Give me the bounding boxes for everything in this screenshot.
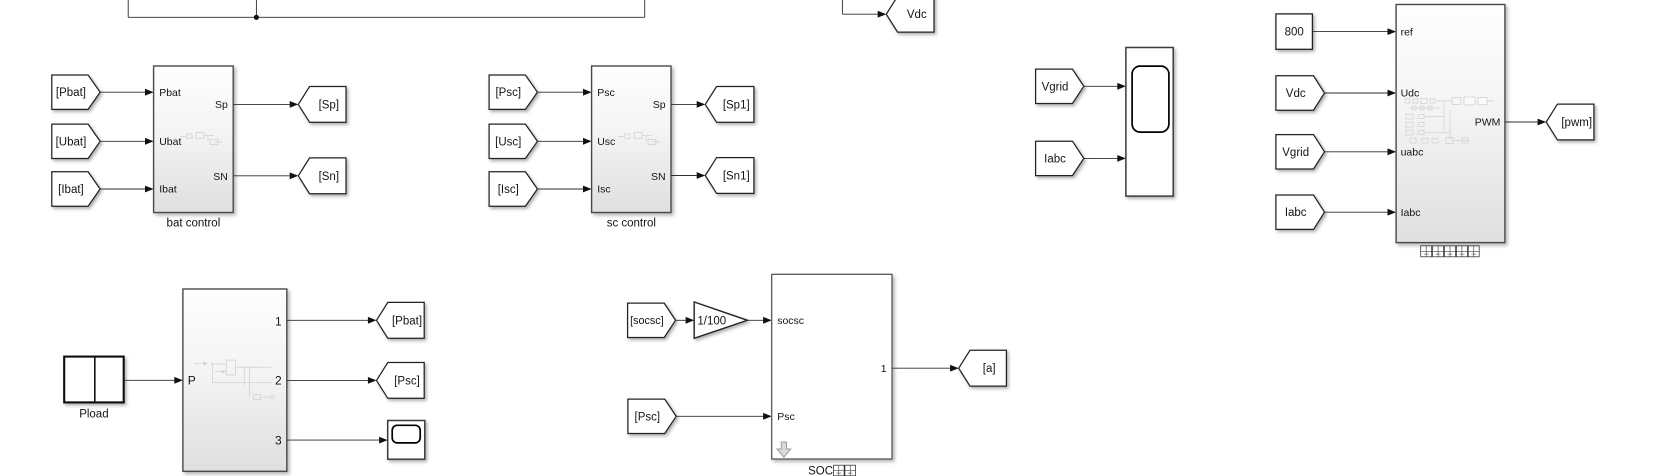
- from tag [Pbat]: [52, 75, 100, 109]
- wire out to [a]: [892, 367, 950, 369]
- svg-text:SN: SN: [213, 171, 228, 183]
- svg-text:SN: SN: [651, 171, 666, 183]
- arrowhead uabc port: [1388, 148, 1397, 155]
- subsystem SOC control: [772, 274, 892, 459]
- svg-text:[Sn1]: [Sn1]: [723, 171, 750, 183]
- arrowhead Usc port: [583, 138, 592, 145]
- svg-text:[pwm]: [pwm]: [1561, 117, 1592, 129]
- wire Sp to [Sp]: [233, 103, 290, 105]
- scope screen icon: [1132, 66, 1169, 132]
- svg-text:1: 1: [881, 363, 887, 375]
- svg-text:Psc: Psc: [597, 87, 615, 99]
- wire Iabc to Iabc port: [1325, 211, 1388, 213]
- wire [Ibat] to bat control: [100, 188, 145, 190]
- scope block (2 inputs): [1126, 48, 1173, 197]
- svg-text:2: 2: [275, 374, 282, 388]
- arrowhead Udc port: [1388, 90, 1397, 97]
- svg-text:Udc: Udc: [1401, 88, 1420, 100]
- svg-text:800: 800: [1285, 27, 1304, 39]
- svg-text:Ubat: Ubat: [159, 136, 181, 148]
- arrowhead Psc port: [583, 89, 592, 96]
- arrowhead ref port: [1388, 28, 1397, 35]
- arrowhead into [pwm]: [1538, 119, 1547, 126]
- arrowhead gain input: [686, 317, 695, 324]
- from tag [Usc]: [489, 124, 537, 158]
- svg-text:Ibat: Ibat: [159, 184, 177, 196]
- from tag Vdc: [1276, 76, 1325, 110]
- arrowhead Iabc port: [1388, 209, 1397, 216]
- wire vertical right rise: [644, 0, 646, 17]
- arrowhead into [Sn1]: [697, 172, 706, 179]
- svg-text:SOC: SOC: [808, 466, 833, 476]
- goto tag [Sn1]: [705, 158, 754, 194]
- wire out1 to [Pbat]: [287, 319, 368, 321]
- svg-text:Psc: Psc: [777, 411, 795, 423]
- block name SOC control (CJK): [808, 465, 855, 476]
- arrowhead into [Psc]: [368, 377, 377, 384]
- wire 800 to ref: [1312, 31, 1387, 33]
- goto tag [Sn]: [298, 158, 346, 194]
- goto tag [Sp1]: [705, 87, 754, 123]
- watermark sketch inside sc control: [618, 133, 660, 145]
- arrowhead Isc port: [583, 186, 592, 193]
- arrowhead into [Sp1]: [697, 101, 706, 108]
- svg-text:socsc: socsc: [777, 315, 804, 327]
- source block Pload: [64, 357, 124, 403]
- svg-text:Pload: Pload: [79, 409, 108, 421]
- wire [Ubat] to bat control: [100, 140, 145, 142]
- svg-text:3: 3: [275, 433, 282, 447]
- from tag Vgrid: [1036, 69, 1084, 103]
- svg-text:Sp: Sp: [653, 99, 666, 111]
- from tag Vgrid (inverter): [1276, 135, 1325, 169]
- svg-text:[Pbat]: [Pbat]: [56, 87, 86, 99]
- goto tag [pwm]: [1546, 104, 1594, 140]
- svg-text:[Psc]: [Psc]: [495, 87, 521, 99]
- wire Sp to [Sp1]: [671, 103, 697, 105]
- wire Vgrid to uabc: [1325, 151, 1388, 153]
- svg-text:uabc: uabc: [1401, 147, 1424, 159]
- svg-text:1: 1: [275, 314, 282, 328]
- svg-text:[Psc]: [Psc]: [394, 375, 420, 387]
- arrowhead into [Sp]: [290, 101, 299, 108]
- svg-text:[Ubat]: [Ubat]: [56, 136, 87, 148]
- svg-text:Vdc: Vdc: [907, 9, 927, 21]
- wire Pload to P: [124, 379, 175, 381]
- from tag [Ibat]: [52, 172, 100, 206]
- svg-text:[Ibat]: [Ibat]: [58, 184, 84, 196]
- wire horizontal feedback: [128, 16, 645, 18]
- arrowhead Ibat port: [145, 186, 154, 193]
- subsystem load distribution: [183, 289, 287, 471]
- svg-text:1/100: 1/100: [697, 315, 726, 327]
- wire gain to socsc port: [747, 319, 763, 321]
- svg-text:PWM: PWM: [1475, 117, 1501, 129]
- goto tag [Pbat]: [377, 302, 425, 338]
- arrowhead scope1 input: [379, 437, 388, 444]
- subsystem bat control: [154, 66, 234, 213]
- arrowhead scope input 1: [1117, 83, 1126, 90]
- svg-text:[Isc]: [Isc]: [498, 184, 519, 196]
- arrowhead P port: [174, 377, 183, 384]
- wire [Psc] to sc control: [537, 91, 583, 93]
- wire out3 to scope: [287, 439, 379, 441]
- block name inverter control (CJK): [1421, 246, 1480, 257]
- svg-text:Usc: Usc: [597, 136, 615, 148]
- goto tag [Sp]: [298, 87, 346, 123]
- arrowhead into [a]: [950, 365, 959, 372]
- svg-text:Vdc: Vdc: [1286, 88, 1306, 100]
- from tag Iabc (inverter): [1276, 195, 1325, 229]
- goto tag Vdc (clipped at top): [886, 0, 934, 32]
- arrowhead Psc port (soc): [763, 413, 772, 420]
- arrowhead Ubat port: [145, 138, 154, 145]
- svg-text:[a]: [a]: [983, 363, 996, 375]
- wire vertical branch: [255, 0, 257, 17]
- from tag [Ubat]: [52, 124, 100, 158]
- from tag Iabc: [1036, 141, 1084, 175]
- wire out2 to [Psc]: [287, 379, 368, 381]
- from tag [Psc]: [489, 75, 537, 109]
- scope screen icon (small): [392, 425, 420, 443]
- arrowhead into [Sn]: [290, 172, 299, 179]
- wire [Usc] to sc control: [537, 140, 583, 142]
- svg-text:ref: ref: [1401, 26, 1413, 38]
- wire Iabc to scope: [1084, 157, 1118, 159]
- wire to Vdc goto vertical: [841, 0, 843, 14]
- svg-text:[Psc]: [Psc]: [635, 411, 661, 423]
- wire Vdc to Udc: [1325, 92, 1388, 94]
- wire [socsc] to gain: [676, 319, 686, 321]
- arrowhead scope input 2: [1117, 155, 1126, 162]
- arrowhead Pbat port: [145, 89, 154, 96]
- svg-text:P: P: [188, 374, 196, 388]
- watermark sketch inside inverter control: [1405, 97, 1494, 144]
- scope block (small, 1 input): [388, 421, 425, 460]
- from tag [Isc]: [489, 172, 537, 206]
- from tag [socsc]: [628, 303, 676, 337]
- wire SN to [Sn]: [233, 175, 290, 177]
- goto tag [Psc]: [377, 363, 425, 399]
- wire [Pbat] to bat control: [100, 91, 145, 93]
- svg-text:Pbat: Pbat: [159, 87, 181, 99]
- junction dot: [254, 15, 259, 20]
- svg-text:bat control: bat control: [167, 218, 221, 230]
- arrowhead into Vdc goto: [878, 11, 887, 18]
- svg-text:[socsc]: [socsc]: [630, 315, 664, 327]
- svg-text:[Pbat]: [Pbat]: [392, 315, 422, 327]
- svg-text:[Usc]: [Usc]: [495, 136, 521, 148]
- watermark sketch inside bat control: [180, 133, 222, 145]
- gain block 1/100: [694, 302, 747, 338]
- variant badge gray down arrow: [777, 442, 791, 457]
- wire [Isc] to sc control: [537, 188, 583, 190]
- svg-text:Iabc: Iabc: [1285, 207, 1307, 219]
- wire vertical left drop: [127, 0, 129, 17]
- arrowhead into [Pbat]: [368, 317, 377, 324]
- watermark sketch inside load subsystem: [194, 360, 274, 399]
- wire SN to [Sn1]: [671, 175, 697, 177]
- subsystem inverter control: [1396, 5, 1505, 243]
- svg-text:Vgrid: Vgrid: [1282, 147, 1309, 159]
- svg-text:[Sn]: [Sn]: [319, 171, 339, 183]
- wire PWM to [pwm]: [1505, 121, 1538, 123]
- svg-text:Iabc: Iabc: [1401, 207, 1421, 219]
- svg-text:[Sp]: [Sp]: [319, 99, 339, 111]
- svg-text:Vgrid: Vgrid: [1042, 81, 1069, 93]
- svg-text:Sp: Sp: [215, 99, 228, 111]
- arrowhead socsc port: [763, 317, 772, 324]
- svg-text:[Sp1]: [Sp1]: [723, 99, 750, 111]
- goto tag [a]: [959, 350, 1007, 386]
- svg-text:sc control: sc control: [607, 218, 656, 230]
- wire [Psc] to Psc port: [676, 415, 763, 417]
- wire Vgrid to scope: [1084, 85, 1118, 87]
- svg-text:Isc: Isc: [597, 184, 610, 196]
- svg-text:Iabc: Iabc: [1044, 153, 1066, 165]
- constant block 800: [1276, 14, 1313, 49]
- wire to Vdc goto horizontal: [842, 13, 878, 15]
- subsystem sc control: [592, 66, 671, 213]
- from tag [Psc] (soc): [628, 399, 676, 433]
